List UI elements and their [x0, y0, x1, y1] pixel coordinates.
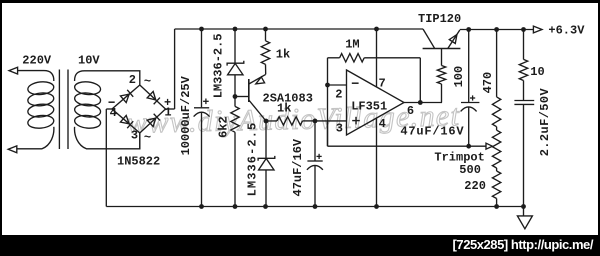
svg-text:TIP120: TIP120 — [418, 12, 461, 26]
svg-text:6: 6 — [407, 104, 414, 118]
svg-text:100: 100 — [452, 66, 466, 88]
svg-text:~: ~ — [144, 75, 151, 89]
svg-text:470: 470 — [481, 72, 495, 94]
svg-text:10: 10 — [530, 65, 544, 79]
svg-text:1N5822: 1N5822 — [117, 154, 160, 168]
svg-text:LF351: LF351 — [351, 100, 387, 114]
svg-text:500: 500 — [459, 163, 481, 177]
svg-text:10V: 10V — [78, 53, 100, 67]
svg-text:7: 7 — [379, 76, 386, 90]
svg-text:1M: 1M — [345, 37, 359, 51]
svg-text:LM336-2.5: LM336-2.5 — [212, 33, 226, 98]
svg-text:~: ~ — [144, 131, 151, 145]
svg-text:47uF/16V: 47uF/16V — [400, 124, 464, 138]
svg-text:LM336-2.5: LM336-2.5 — [246, 122, 260, 197]
svg-text:220: 220 — [464, 179, 486, 193]
svg-text:1k: 1k — [276, 48, 290, 62]
svg-text:220V: 220V — [22, 53, 52, 67]
svg-text:3: 3 — [131, 128, 138, 142]
svg-text:1k: 1k — [277, 102, 291, 116]
svg-text:10000uF/25V: 10000uF/25V — [179, 75, 193, 155]
svg-text:+6.3V: +6.3V — [548, 24, 585, 38]
svg-text:6k2: 6k2 — [217, 116, 231, 138]
svg-text:4: 4 — [379, 117, 386, 131]
svg-text:3: 3 — [336, 121, 343, 135]
svg-text:2.2uF/50V: 2.2uF/50V — [538, 87, 552, 156]
svg-text:4: 4 — [110, 106, 117, 120]
svg-text:1: 1 — [164, 106, 171, 120]
svg-text:47uF/16V: 47uF/16V — [291, 138, 305, 196]
svg-text:2: 2 — [129, 73, 136, 87]
svg-text:2: 2 — [335, 87, 342, 101]
